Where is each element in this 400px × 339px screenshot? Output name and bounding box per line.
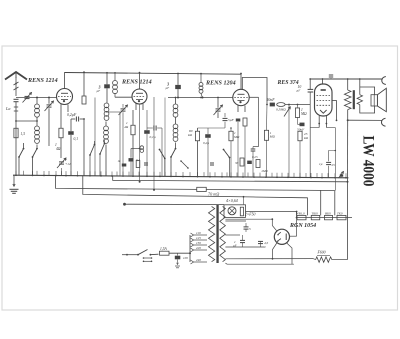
wire primary down	[347, 110, 349, 121]
trimmer pad1	[59, 161, 64, 163]
svg-text:150: 150	[196, 241, 201, 245]
wire tube2 anode	[139, 73, 141, 89]
capacitor blob k1	[68, 131, 74, 135]
wire rgn cathode left	[273, 243, 277, 259]
switch S2b	[159, 149, 161, 151]
trimmer cap antenna	[25, 95, 30, 97]
wire bus3	[56, 176, 197, 190]
pot wiper arrow	[284, 107, 290, 117]
resistor TiK0	[311, 215, 320, 219]
transformer primary	[209, 207, 215, 262]
wire coil1 stem	[36, 98, 38, 105]
capacitor blob a3	[205, 134, 211, 138]
capacitor screen2	[153, 126, 155, 131]
tap hook 110	[191, 233, 194, 237]
wire grid2 drop	[106, 111, 120, 113]
capacitor det2	[251, 148, 256, 150]
wire af line	[285, 104, 310, 106]
capacitor blob k2	[144, 130, 150, 134]
wire row vert1	[296, 212, 298, 218]
capacitor heater1	[244, 226, 249, 228]
svg-text:kΩ: kΩ	[304, 136, 309, 140]
wire lampbox feed	[243, 197, 245, 205]
trimmer cap C2	[47, 104, 52, 106]
svg-text:0,1µ: 0,1µ	[150, 135, 156, 140]
svg-text:2×F50: 2×F50	[245, 212, 256, 216]
ground symbol	[13, 175, 15, 186]
resistor screen1	[82, 96, 86, 104]
svg-text:RES 374: RES 374	[277, 80, 299, 86]
mains switch blade	[137, 254, 139, 256]
svg-text:4Ω: 4Ω	[124, 125, 129, 129]
svg-text:µ: µ	[264, 245, 266, 249]
wire bus3 tap a	[320, 190, 322, 215]
coil L4a	[173, 104, 178, 109]
resistor 70mohm	[197, 187, 207, 191]
tap hook 125	[191, 238, 194, 242]
wire fuse right	[169, 252, 190, 254]
coil L1a	[35, 104, 40, 109]
sec winding end	[225, 263, 227, 264]
svg-text:F600: F600	[317, 251, 326, 255]
svg-text:µF: µF	[97, 89, 101, 93]
transformer out secondary winding	[357, 95, 362, 105]
svg-text:4×0,64: 4×0,64	[226, 198, 238, 204]
transformer out primary winding	[344, 90, 351, 110]
capacitor bias blob	[300, 123, 305, 127]
tube RENS1214 no1	[57, 89, 73, 105]
cap above bus g	[247, 161, 252, 164]
resistor grid3	[229, 131, 233, 141]
wire out tube top	[322, 79, 324, 84]
fuse resistor	[316, 257, 332, 262]
B+ rail right	[310, 78, 383, 80]
cap marks on stem	[14, 106, 18, 108]
wire out anode exit	[332, 99, 337, 101]
lamp resistor	[240, 207, 243, 216]
wire bus2	[113, 176, 348, 182]
wire out pin left	[310, 127, 319, 129]
svg-text:0,5MΩ: 0,5MΩ	[276, 108, 286, 113]
wire rgn out	[290, 235, 297, 237]
svg-text:25: 25	[332, 163, 336, 167]
svg-text:0,2µF: 0,2µF	[67, 113, 77, 118]
tap hook 220	[191, 248, 194, 252]
bus joint ticks	[15, 171, 17, 176]
svg-text:TK0: TK0	[337, 212, 343, 216]
wire cap to coil2	[106, 88, 108, 103]
sec tap4	[225, 246, 264, 248]
fuse box	[160, 251, 170, 255]
terminal hook bottom	[382, 118, 386, 126]
coil L2a	[104, 103, 109, 108]
svg-text:5: 5	[249, 227, 251, 231]
capacitor 5uF	[223, 117, 228, 119]
capacitor out2	[326, 161, 331, 163]
svg-text:70 mΩ: 70 mΩ	[208, 191, 219, 196]
wire L2 down	[105, 145, 107, 176]
svg-text:MΩ: MΩ	[300, 112, 307, 116]
capacitor antenna series	[14, 98, 19, 100]
tap hook 150	[191, 243, 194, 247]
tap hook 240	[191, 260, 194, 264]
wire rgn anode	[272, 226, 277, 232]
wire speaker loop bottom	[360, 105, 375, 113]
svg-text:125: 125	[196, 236, 201, 240]
cap above bus c	[144, 162, 148, 164]
resistor TK0	[337, 215, 346, 219]
wire bus4	[83, 176, 308, 216]
switch S1c	[94, 144, 96, 146]
page frame	[2, 46, 398, 310]
ground bus wire	[13, 175, 348, 178]
resistor grid out	[295, 108, 299, 118]
trimmer cap C5	[216, 108, 221, 110]
terminal hook top	[382, 77, 386, 85]
wire tube3 anode	[240, 74, 242, 90]
wire speaker loop top	[360, 87, 375, 95]
wire vert164	[164, 98, 166, 177]
capacitor couple1 blob	[104, 84, 110, 88]
svg-text:2MΩ: 2MΩ	[262, 169, 269, 173]
sec tap2	[225, 220, 246, 222]
capacitor blob k2b	[129, 158, 134, 161]
resistor det	[243, 118, 247, 126]
heater line	[246, 211, 297, 213]
box above bus b	[136, 161, 140, 168]
switch S1d	[104, 143, 106, 145]
svg-text:0,1: 0,1	[74, 137, 79, 142]
wire L4 down	[175, 143, 177, 147]
wire ca3 h	[198, 127, 226, 129]
wire L1 link	[36, 118, 38, 127]
svg-text:50nF: 50nF	[267, 98, 276, 102]
tube RES374 envelope	[315, 84, 333, 116]
wire L4 link	[175, 118, 177, 125]
resistor 1.5 on stem	[14, 128, 18, 138]
svg-text:5µF: 5µF	[228, 118, 235, 122]
mains switch pole3	[143, 260, 152, 262]
wire x347 lower	[346, 218, 348, 260]
wire bus5	[123, 203, 126, 206]
wire fuse left	[313, 259, 316, 260]
wire L1 down	[36, 145, 38, 147]
tube RENS1214 no2	[132, 89, 147, 104]
svg-text:kΩ: kΩ	[188, 133, 193, 137]
coil L1b	[35, 126, 40, 131]
capacitor af 50nF blob	[270, 103, 275, 107]
coil L3 top	[199, 83, 203, 87]
coil L4b	[173, 124, 178, 129]
trimmer mark near bus	[339, 172, 344, 179]
resistor cathode2	[131, 125, 135, 135]
cap above bus e	[210, 162, 214, 164]
tube RGN1054	[274, 229, 289, 244]
wire grid3	[168, 97, 233, 99]
capacitor ht1	[240, 239, 245, 241]
wire antenna stem	[15, 77, 17, 96]
wire x347 vertical	[347, 120, 349, 182]
tube RES374 internals	[321, 89, 326, 91]
mains wire left	[122, 254, 138, 256]
B+ rail wire	[65, 73, 242, 75]
wire L2 link	[105, 122, 107, 127]
svg-text:240: 240	[196, 258, 201, 262]
svg-text:RENS 1214: RENS 1214	[121, 80, 152, 86]
ground mains	[177, 260, 179, 265]
resistor bias	[298, 131, 302, 141]
svg-text:RGN 1054: RGN 1054	[289, 223, 316, 229]
svg-text:110: 110	[196, 231, 201, 235]
coil L2b	[104, 126, 109, 131]
lamp box	[224, 205, 246, 218]
trimmer cap C3	[121, 108, 126, 110]
switch S1a	[23, 146, 25, 148]
wire plate bridge	[242, 78, 267, 105]
wire bus3 tap b	[334, 191, 336, 216]
svg-text:4Ω: 4Ω	[56, 147, 61, 151]
wire tube3 plate	[249, 96, 258, 98]
wire antenna tap	[16, 120, 37, 122]
svg-text:0,2µ: 0,2µ	[203, 141, 209, 146]
switch S2	[175, 146, 177, 148]
lamp	[228, 207, 236, 215]
primary tap feed	[189, 235, 191, 262]
speaker driver	[371, 95, 377, 106]
wire det2 turn	[253, 146, 259, 148]
capacitor det blob	[236, 119, 241, 122]
transformer secondary	[220, 207, 226, 262]
tube RENS1204	[233, 89, 249, 105]
switch S3	[223, 149, 225, 151]
switch above bus d	[181, 161, 188, 168]
cap above bus h	[256, 160, 260, 168]
antenna trimmer marks	[14, 82, 19, 85]
choke k2	[131, 148, 140, 150]
svg-text:+12: +12	[65, 162, 71, 166]
resistor WB1.0	[297, 215, 306, 219]
coil anode2	[113, 81, 118, 86]
box above bus f	[240, 158, 244, 166]
sec tap5	[225, 258, 313, 260]
choke feed line	[348, 119, 382, 121]
resistor BK0	[325, 215, 333, 219]
capacitor rail stub	[329, 74, 333, 76]
wire fuse right2	[332, 259, 348, 261]
svg-text:µF: µF	[297, 88, 301, 92]
wire stage2 vert b	[153, 97, 155, 190]
capacitor mains blob	[175, 256, 181, 260]
capacitor 10uF	[308, 88, 314, 90]
capacitor couple2	[175, 85, 181, 89]
wire tube3 pins	[237, 106, 239, 113]
svg-text:µF: µF	[233, 244, 237, 248]
svg-text:220: 220	[196, 246, 201, 250]
resistor row wire	[297, 217, 352, 219]
svg-text:RENS 1214: RENS 1214	[27, 78, 58, 84]
transformer out core	[353, 90, 355, 109]
svg-text:MΩ: MΩ	[233, 135, 240, 139]
svg-text:1k: 1k	[118, 159, 122, 163]
resistor anode3	[195, 131, 199, 141]
wire out pin right	[326, 127, 335, 129]
transformer core	[216, 205, 218, 263]
wire cap branch	[329, 151, 336, 162]
svg-text:RENS 1204: RENS 1204	[205, 81, 236, 87]
svg-text:100: 100	[183, 256, 188, 260]
wire tube1 anode	[64, 72, 66, 89]
antenna	[5, 72, 27, 80]
pot oval	[277, 103, 285, 107]
cap above bus a	[122, 164, 127, 167]
svg-text:LW 4000: LW 4000	[360, 136, 377, 187]
bus junction dots	[15, 174, 17, 176]
svg-text:TiK0: TiK0	[312, 212, 319, 216]
wire cap right leg	[83, 119, 85, 176]
resistor grid leak	[266, 105, 269, 131]
wire rgn cathode right	[286, 243, 292, 265]
mains switch pole2	[143, 257, 152, 259]
capacitor 0.2uF	[75, 117, 77, 122]
capacitor ht2	[258, 240, 263, 242]
wire grid tube2	[115, 96, 132, 98]
wire tube1 pins	[60, 104, 62, 112]
wire stage2 vert	[94, 98, 96, 176]
speaker cone	[377, 88, 386, 111]
svg-text:MΩ: MΩ	[269, 135, 276, 139]
switch S1b	[36, 146, 38, 148]
svg-text:1µ: 1µ	[319, 162, 323, 166]
svg-text:30: 30	[235, 161, 239, 165]
wire out tube pins	[318, 116, 320, 128]
svg-text:BK0: BK0	[325, 212, 331, 216]
sec tap3	[225, 234, 240, 236]
wire tube2 pins	[135, 104, 137, 111]
svg-text:1,5: 1,5	[21, 132, 26, 137]
svg-text:La: La	[5, 106, 10, 111]
resistor cathode1	[59, 128, 63, 138]
wire grid1	[16, 97, 57, 99]
svg-text:µF: µF	[166, 86, 170, 90]
